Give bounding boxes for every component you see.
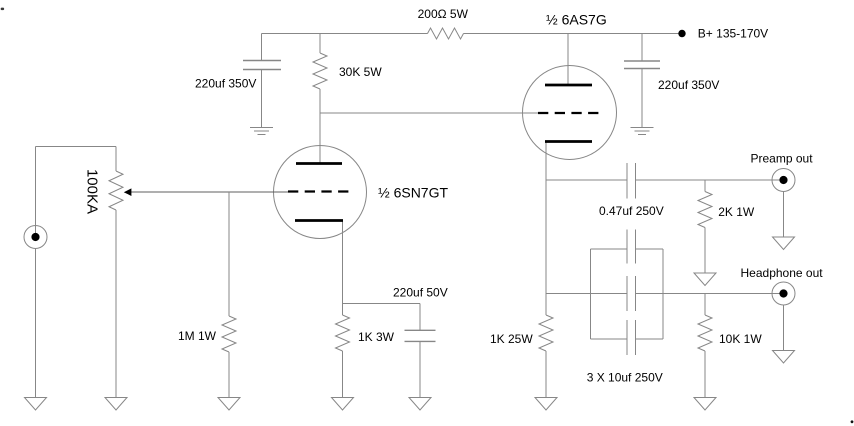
svg-text:220uf 350V: 220uf 350V: [658, 78, 719, 92]
svg-text:1K 3W: 1K 3W: [358, 330, 395, 344]
svg-text:220uf 50V: 220uf 50V: [393, 286, 448, 300]
svg-text:10K 1W: 10K 1W: [719, 332, 762, 346]
svg-text:0.47uf 250V: 0.47uf 250V: [599, 204, 664, 218]
svg-text:200Ω 5W: 200Ω 5W: [418, 7, 469, 21]
svg-text:100KA: 100KA: [84, 169, 101, 214]
svg-text:Preamp out: Preamp out: [751, 152, 814, 166]
svg-text:220uf 350V: 220uf 350V: [195, 77, 256, 91]
svg-text:½ 6AS7G: ½ 6AS7G: [546, 12, 607, 28]
svg-text:1M 1W: 1M 1W: [178, 329, 217, 343]
svg-text:Headphone out: Headphone out: [741, 266, 824, 280]
svg-text:30K 5W: 30K 5W: [339, 65, 382, 79]
svg-text:1K 25W: 1K 25W: [490, 332, 533, 346]
svg-text:2K 1W: 2K 1W: [718, 205, 755, 219]
svg-text:B+ 135-170V: B+ 135-170V: [698, 27, 768, 41]
svg-text:3 X 10uf 250V: 3 X 10uf 250V: [587, 371, 663, 385]
svg-text:½ 6SN7GT: ½ 6SN7GT: [378, 184, 448, 200]
